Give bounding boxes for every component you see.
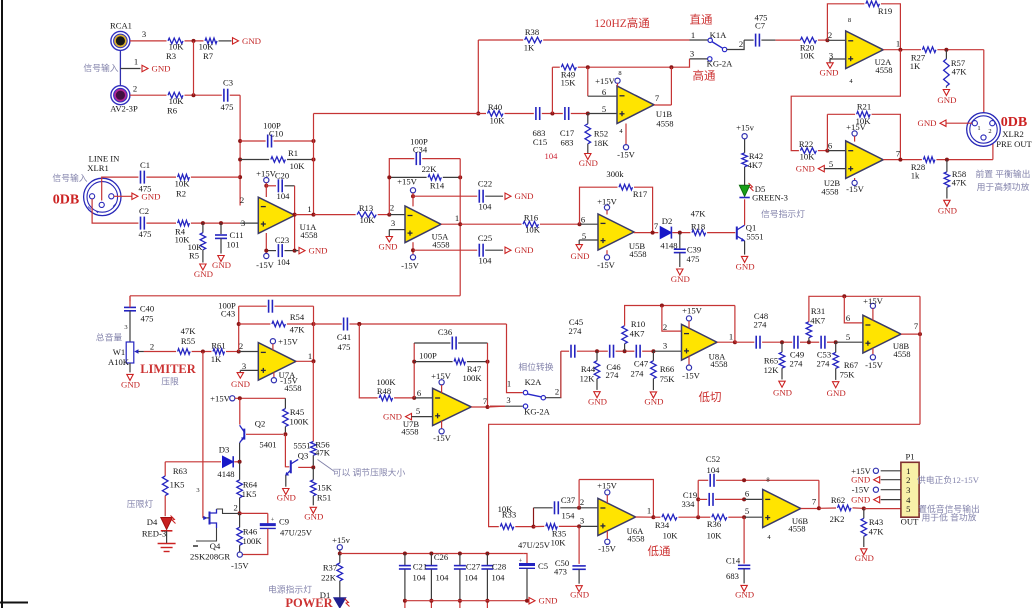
svg-text:C23: C23: [275, 235, 289, 245]
svg-text:0DB: 0DB: [53, 193, 79, 208]
svg-text:Q4: Q4: [210, 541, 221, 551]
svg-text:R6: R6: [167, 106, 178, 116]
svg-text:-15V: -15V: [597, 260, 615, 270]
svg-text:+15V: +15V: [597, 480, 617, 490]
svg-text:+15V: +15V: [863, 296, 883, 306]
svg-text:10K: 10K: [360, 215, 376, 225]
svg-text:LIMITER: LIMITER: [140, 362, 197, 376]
svg-text:10K: 10K: [525, 225, 541, 235]
svg-text:104: 104: [479, 202, 493, 212]
svg-text:75K: 75K: [660, 374, 676, 384]
svg-text:10K: 10K: [169, 96, 185, 106]
svg-text:1: 1: [507, 378, 511, 388]
svg-text:473: 473: [554, 567, 567, 577]
svg-text:274: 274: [606, 370, 620, 380]
svg-text:Q3: Q3: [298, 450, 309, 460]
svg-text:10K: 10K: [490, 116, 506, 126]
svg-text:274: 274: [817, 359, 831, 369]
svg-text:4558: 4558: [710, 359, 727, 369]
svg-text:683: 683: [561, 138, 574, 148]
svg-text:+: +: [271, 517, 275, 524]
svg-text:GND: GND: [855, 553, 874, 563]
svg-text:3: 3: [142, 29, 146, 39]
svg-text:4558: 4558: [893, 349, 910, 359]
svg-text:2: 2: [739, 39, 743, 49]
svg-text:R5: R5: [189, 251, 199, 261]
svg-text:GND: GND: [212, 260, 231, 270]
svg-text:D3: D3: [219, 445, 230, 455]
svg-text:D2: D2: [662, 216, 673, 226]
svg-text:+15v: +15v: [736, 123, 754, 133]
svg-text:GND: GND: [937, 95, 956, 105]
svg-text:R45: R45: [290, 407, 304, 417]
svg-text:+15V: +15V: [431, 371, 451, 381]
svg-text:压限: 压限: [161, 377, 179, 387]
svg-text:+15V: +15V: [595, 76, 615, 86]
svg-text:8: 8: [848, 17, 851, 24]
svg-text:-15V: -15V: [617, 150, 635, 160]
svg-text:C34: C34: [413, 145, 428, 155]
svg-text:GND: GND: [242, 36, 261, 46]
svg-text:4K7: 4K7: [630, 328, 646, 338]
svg-text:15K: 15K: [317, 482, 333, 492]
svg-text:2: 2: [150, 341, 154, 351]
svg-text:4558: 4558: [629, 249, 646, 259]
svg-text:C14: C14: [726, 556, 741, 566]
svg-text:GND: GND: [827, 388, 846, 398]
svg-text:-15V: -15V: [852, 485, 870, 495]
svg-text:7: 7: [655, 93, 660, 103]
svg-text:R18: R18: [691, 221, 705, 231]
svg-text:3: 3: [580, 516, 584, 526]
svg-text:用于高频功放: 用于高频功放: [977, 181, 1030, 192]
svg-text:R52: R52: [594, 129, 608, 139]
svg-text:2: 2: [233, 503, 237, 513]
svg-text:683: 683: [726, 571, 739, 581]
svg-text:274: 274: [569, 326, 583, 336]
svg-text:KG-2A: KG-2A: [707, 59, 734, 69]
svg-text:R48: R48: [377, 386, 391, 396]
svg-text:1K: 1K: [211, 354, 222, 364]
svg-text:18K: 18K: [594, 138, 610, 148]
svg-text:6: 6: [581, 214, 586, 224]
svg-text:U1B: U1B: [656, 109, 673, 119]
svg-text:47K: 47K: [290, 325, 306, 335]
svg-text:5: 5: [416, 406, 420, 416]
svg-text:C41: C41: [337, 332, 351, 342]
svg-text:1: 1: [647, 506, 651, 516]
svg-text:R33: R33: [502, 510, 516, 520]
svg-text:5551: 5551: [293, 441, 310, 451]
svg-text:+15V: +15V: [397, 177, 417, 187]
svg-text:6: 6: [846, 313, 851, 323]
svg-text:475: 475: [338, 342, 351, 352]
svg-text:R63: R63: [173, 466, 187, 476]
svg-text:22K: 22K: [422, 164, 438, 174]
svg-text:R38: R38: [525, 27, 539, 37]
svg-text:R36: R36: [707, 519, 722, 529]
svg-text:7: 7: [483, 396, 488, 406]
svg-text:6: 6: [417, 388, 422, 398]
svg-text:2: 2: [906, 475, 910, 485]
svg-text:8: 8: [618, 70, 621, 77]
svg-text:104: 104: [465, 573, 479, 583]
svg-text:104: 104: [479, 256, 493, 266]
svg-text:GND: GND: [378, 242, 397, 252]
svg-text:4558: 4558: [656, 119, 673, 129]
svg-text:C21: C21: [413, 562, 427, 572]
svg-text:供电正负12-15V: 供电正负12-15V: [917, 474, 980, 485]
svg-text:R55: R55: [181, 336, 195, 346]
svg-text:1: 1: [134, 57, 138, 67]
svg-text:R62: R62: [831, 495, 845, 505]
svg-text:1: 1: [977, 125, 980, 132]
svg-text:C20: C20: [275, 171, 289, 181]
svg-text:R21: R21: [857, 102, 871, 112]
svg-text:GND: GND: [121, 380, 140, 390]
svg-text:104: 104: [413, 573, 427, 583]
svg-text:2: 2: [133, 84, 137, 94]
svg-text:274: 274: [631, 369, 645, 379]
svg-text:R19: R19: [878, 6, 892, 16]
svg-text:10K: 10K: [800, 51, 816, 61]
svg-text:R7: R7: [203, 51, 214, 61]
svg-text:信号指示灯: 信号指示灯: [761, 208, 805, 219]
svg-text:5551: 5551: [746, 232, 763, 242]
svg-text:-15V: -15V: [598, 544, 616, 554]
svg-text:2: 2: [580, 497, 584, 507]
svg-text:C43: C43: [221, 309, 235, 319]
svg-text:C15: C15: [533, 137, 547, 147]
svg-text:GND: GND: [819, 67, 838, 77]
svg-text:12K: 12K: [580, 373, 596, 383]
svg-text:1: 1: [307, 204, 311, 214]
svg-text:C40: C40: [140, 304, 154, 314]
svg-text:GND: GND: [588, 397, 607, 407]
svg-text:R54: R54: [290, 312, 305, 322]
svg-text:4558: 4558: [821, 187, 838, 197]
svg-text:GND: GND: [736, 262, 755, 272]
svg-text:Q2: Q2: [255, 419, 266, 429]
svg-text:120HZ高通: 120HZ高通: [594, 16, 650, 30]
svg-text:GND: GND: [231, 379, 250, 389]
svg-text:10K: 10K: [707, 531, 723, 541]
svg-text:相位转换: 相位转换: [518, 361, 553, 372]
svg-text:2: 2: [390, 203, 394, 213]
svg-text:R37: R37: [323, 563, 338, 573]
svg-text:2SK208GR: 2SK208GR: [190, 552, 230, 562]
svg-text:3: 3: [663, 340, 667, 350]
svg-text:2: 2: [239, 341, 243, 351]
svg-text:104: 104: [277, 191, 291, 201]
svg-text:4558: 4558: [627, 534, 644, 544]
svg-text:6: 6: [828, 141, 833, 151]
svg-text:7: 7: [654, 221, 659, 231]
svg-text:GND: GND: [151, 64, 170, 74]
svg-text:3: 3: [196, 487, 199, 494]
svg-text:前置 平衡输出: 前置 平衡输出: [976, 168, 1031, 179]
svg-text:5401: 5401: [259, 440, 276, 450]
svg-text:4558: 4558: [432, 240, 449, 250]
svg-text:475: 475: [139, 229, 152, 239]
svg-text:4558: 4558: [875, 65, 892, 75]
svg-text:4K7: 4K7: [810, 315, 826, 325]
svg-text:GND: GND: [514, 191, 533, 201]
svg-text:274: 274: [754, 320, 768, 330]
svg-text:15K: 15K: [561, 78, 577, 88]
svg-text:2: 2: [828, 30, 832, 40]
svg-text:GND: GND: [308, 246, 327, 256]
svg-text:6: 6: [602, 87, 607, 97]
svg-text:10K: 10K: [199, 42, 215, 52]
svg-text:+15V: +15V: [846, 122, 866, 132]
svg-text:R16: R16: [524, 212, 539, 222]
svg-text:GND: GND: [851, 475, 870, 485]
svg-text:GND: GND: [304, 512, 323, 522]
svg-text:3: 3: [690, 49, 694, 59]
svg-text:+15V: +15V: [682, 306, 702, 316]
svg-text:C28: C28: [492, 562, 506, 572]
svg-text:5: 5: [602, 104, 606, 114]
svg-text:4558: 4558: [401, 427, 418, 437]
svg-text:R51: R51: [317, 493, 331, 503]
svg-text:R3: R3: [166, 51, 176, 61]
svg-text:10K: 10K: [290, 161, 306, 171]
svg-text:+15V: +15V: [210, 394, 230, 404]
svg-text:C5: C5: [538, 561, 548, 571]
svg-text:+: +: [519, 558, 523, 565]
svg-text:1K: 1K: [910, 61, 921, 71]
svg-text:GND: GND: [570, 251, 589, 261]
svg-text:GND: GND: [735, 590, 754, 600]
svg-text:C47: C47: [634, 359, 649, 369]
svg-text:R43: R43: [869, 517, 883, 527]
svg-text:C27: C27: [466, 562, 481, 572]
svg-text:C37: C37: [561, 495, 576, 505]
svg-text:R66: R66: [660, 364, 675, 374]
svg-text:1K5: 1K5: [242, 489, 257, 499]
svg-text:GREEN-3: GREEN-3: [752, 193, 788, 203]
svg-text:总音量: 总音量: [96, 332, 123, 343]
svg-text:2: 2: [663, 322, 667, 332]
svg-text:用于低 音功放: 用于低 音功放: [922, 512, 977, 523]
svg-text:104: 104: [277, 257, 291, 267]
svg-text:AV2-3P: AV2-3P: [110, 104, 138, 114]
svg-text:47K: 47K: [869, 527, 885, 537]
svg-text:低切: 低切: [699, 391, 722, 404]
svg-text:R64: R64: [243, 480, 258, 490]
svg-text:C7: C7: [755, 21, 766, 31]
svg-text:5: 5: [745, 506, 749, 516]
svg-text:4558: 4558: [788, 524, 805, 534]
svg-text:5: 5: [829, 159, 833, 169]
svg-text:1k: 1k: [911, 171, 920, 181]
svg-text:101: 101: [227, 240, 240, 250]
svg-text:GND: GND: [851, 495, 870, 505]
svg-text:475: 475: [141, 314, 154, 324]
svg-text:KG-2A: KG-2A: [524, 407, 551, 417]
svg-text:334: 334: [682, 499, 696, 509]
svg-text:3: 3: [391, 218, 395, 228]
svg-text:-15V: -15V: [401, 261, 419, 271]
svg-text:10K: 10K: [800, 152, 816, 162]
svg-text:XLR1: XLR1: [87, 163, 108, 173]
svg-text:-15V: -15V: [231, 561, 249, 571]
svg-text:1: 1: [691, 30, 695, 40]
svg-text:0DB: 0DB: [1001, 115, 1027, 130]
svg-text:475: 475: [139, 184, 152, 194]
svg-text:-15V: -15V: [846, 184, 864, 194]
svg-text:P1: P1: [905, 452, 914, 462]
svg-text:R22: R22: [799, 139, 813, 149]
svg-text:47U/25V: 47U/25V: [280, 528, 313, 538]
svg-text:8: 8: [766, 477, 769, 484]
svg-text:4148: 4148: [217, 469, 234, 479]
svg-text:GND: GND: [938, 206, 957, 216]
svg-text:R1: R1: [288, 148, 298, 158]
svg-text:C11: C11: [229, 230, 243, 240]
svg-text:-15V: -15V: [280, 376, 298, 386]
svg-text:POWER: POWER: [285, 596, 333, 608]
svg-text:R13: R13: [359, 203, 373, 213]
svg-text:1: 1: [308, 351, 312, 361]
svg-text:1: 1: [455, 213, 459, 223]
svg-text:75K: 75K: [840, 369, 856, 379]
svg-text:2: 2: [988, 128, 991, 135]
svg-text:C22: C22: [478, 179, 492, 189]
svg-text:2K2: 2K2: [830, 514, 845, 524]
svg-text:C17: C17: [560, 128, 575, 138]
svg-text:4K7: 4K7: [748, 160, 764, 170]
svg-text:GND: GND: [383, 412, 402, 422]
svg-text:GND: GND: [579, 158, 598, 168]
svg-text:3: 3: [506, 395, 510, 405]
svg-text:RCA1: RCA1: [110, 21, 132, 31]
svg-text:3: 3: [124, 324, 127, 331]
svg-text:7: 7: [812, 497, 817, 507]
svg-text:GND: GND: [796, 164, 815, 174]
svg-text:C36: C36: [438, 327, 453, 337]
svg-text:K2A: K2A: [525, 377, 543, 387]
svg-text:XLR2: XLR2: [1002, 129, 1023, 139]
svg-text:1: 1: [896, 39, 900, 49]
svg-text:7: 7: [914, 321, 919, 331]
svg-text:2: 2: [555, 386, 559, 396]
svg-text:可以 调节压限大小: 可以 调节压限大小: [333, 467, 406, 478]
svg-text:GND: GND: [773, 388, 792, 398]
svg-text:C9: C9: [279, 517, 289, 527]
svg-text:-15V: -15V: [682, 370, 700, 380]
svg-text:高通: 高通: [693, 69, 716, 83]
svg-text:GND: GND: [917, 118, 936, 128]
svg-text:-15V: -15V: [433, 433, 451, 443]
svg-text:3: 3: [906, 485, 910, 495]
svg-text:RED-3: RED-3: [142, 529, 166, 539]
svg-text:100K: 100K: [242, 536, 262, 546]
svg-text:10K: 10K: [663, 531, 679, 541]
svg-text:10K: 10K: [175, 179, 191, 189]
svg-text:47K: 47K: [315, 448, 331, 458]
svg-text:GND: GND: [538, 596, 557, 606]
svg-text:R40: R40: [488, 102, 502, 112]
svg-text:47K: 47K: [181, 326, 197, 336]
svg-text:1K5: 1K5: [170, 480, 185, 490]
svg-text:104: 104: [492, 573, 506, 583]
svg-text:104: 104: [545, 151, 559, 161]
svg-text:7: 7: [896, 149, 901, 159]
svg-text:47K: 47K: [952, 178, 968, 188]
svg-text:R14: R14: [430, 181, 445, 191]
svg-text:R17: R17: [633, 189, 648, 199]
svg-text:12K: 12K: [764, 365, 780, 375]
svg-text:104: 104: [436, 573, 450, 583]
svg-text:C39: C39: [687, 245, 701, 255]
svg-text:C52: C52: [706, 454, 720, 464]
svg-text:5: 5: [846, 332, 850, 342]
svg-text:OUT: OUT: [901, 517, 919, 527]
svg-text:GND: GND: [514, 245, 533, 255]
svg-text:22K: 22K: [321, 573, 337, 583]
svg-text:100P: 100P: [419, 351, 437, 361]
svg-text:GND: GND: [194, 269, 213, 279]
svg-text:100K: 100K: [462, 373, 482, 383]
svg-text:信号输入: 信号输入: [83, 62, 118, 73]
svg-text:A10K: A10K: [108, 357, 130, 367]
svg-text:低通: 低通: [648, 545, 671, 558]
svg-text:R61: R61: [211, 340, 225, 350]
svg-text:154: 154: [562, 511, 576, 521]
svg-text:C2: C2: [139, 206, 149, 216]
svg-text:C1: C1: [140, 160, 150, 170]
svg-text:5: 5: [906, 504, 910, 514]
svg-text:PRE OUT: PRE OUT: [996, 139, 1032, 149]
svg-text:信号输入: 信号输入: [52, 172, 87, 183]
svg-text:104: 104: [707, 465, 721, 475]
svg-text:C3: C3: [223, 78, 233, 88]
svg-text:+15V: +15V: [278, 337, 298, 347]
svg-text:W1: W1: [113, 347, 125, 357]
svg-text:2: 2: [240, 195, 244, 205]
svg-text:-15V: -15V: [256, 260, 274, 270]
svg-text:10K: 10K: [169, 42, 185, 52]
svg-text:C26: C26: [434, 552, 449, 562]
svg-text:GND: GND: [570, 590, 589, 600]
svg-text:R34: R34: [655, 520, 670, 530]
svg-text:R46: R46: [243, 527, 258, 537]
svg-text:R2: R2: [176, 189, 186, 199]
svg-text:475: 475: [687, 254, 700, 264]
svg-text:3: 3: [241, 218, 245, 228]
svg-text:4558: 4558: [300, 230, 317, 240]
svg-text:电源指示灯: 电源指示灯: [268, 584, 312, 595]
svg-text:GND: GND: [671, 274, 690, 284]
svg-text:压限灯: 压限灯: [127, 499, 154, 509]
svg-text:100K: 100K: [289, 417, 309, 427]
svg-text:3: 3: [242, 361, 246, 371]
svg-text:GND: GND: [277, 493, 296, 503]
svg-text:D4: D4: [147, 517, 158, 527]
svg-text:10K: 10K: [551, 538, 567, 548]
svg-text:47K: 47K: [952, 67, 968, 77]
svg-text:47K: 47K: [691, 209, 707, 219]
svg-text:475: 475: [221, 102, 234, 112]
svg-text:6: 6: [745, 488, 750, 498]
svg-text:C10: C10: [269, 128, 283, 138]
svg-text:LINE IN: LINE IN: [89, 154, 121, 164]
svg-text:-15V: -15V: [865, 360, 883, 370]
svg-text:47U/25V: 47U/25V: [518, 540, 551, 550]
svg-text:1: 1: [729, 332, 733, 342]
